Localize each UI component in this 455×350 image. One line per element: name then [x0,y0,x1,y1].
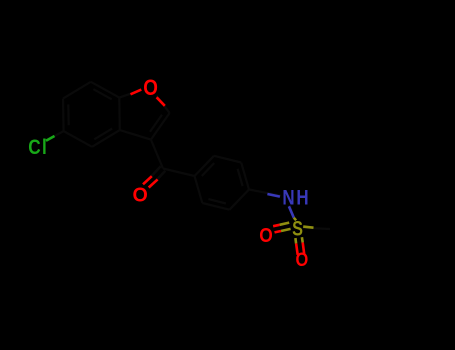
atom label O (sulfonyl left) [259,225,273,248]
S=O bottom double bond (olive/red) [295,237,304,255]
bond C1p-C2p [195,156,215,176]
S=O left double bond (olive/red) [273,223,291,233]
bond C4p-N dark half [249,190,281,196]
bond C3a-C7a [118,98,121,131]
bond C7a-O1 dark half [119,90,141,98]
double bond C5p=C6p inner line [208,199,226,203]
svg-text:O: O [133,184,148,206]
bond C3-C3a [120,130,151,140]
bond S-CH3 olive half [303,227,313,228]
bond C5-Cl green half [46,136,55,141]
atom label Cl - letter C [28,135,40,159]
bond N-S base [290,205,295,219]
atom label O (ketone) [133,184,148,206]
svg-text:l: l [42,135,47,159]
carbonyl C=O red half line 1 [143,176,152,184]
carbonyl C=O red half line 2 [149,179,158,187]
bond C7-C6 [63,82,91,99]
carbonyl C=O double bond dark halves [145,166,166,188]
double bond C2=C3 inner line [150,115,162,132]
bond C3-Cket [151,140,163,169]
bond C6-C5 [62,99,65,132]
atom label N of NH [282,187,294,210]
atom label H of NH [296,187,308,210]
bond C5-Cl dark half [48,131,64,140]
bond C5p-C6p [202,203,229,210]
svg-text:O: O [143,76,158,101]
atom label O (furan O1) [143,76,158,101]
bond C4p-C5p [230,190,250,210]
atom label Cl - letter l [42,135,47,159]
bond O1-C2 dark half [157,96,170,113]
bond C2p-C3p [214,156,241,163]
svg-text:S: S [292,216,303,239]
double bond C1p=C2p inner line [202,163,214,176]
bond C3p-C4p [241,163,249,190]
double bond C3p=C4p inner line [238,169,243,186]
bond C4p-N blue half [267,194,280,197]
double bond C7=C7a inner line [93,89,111,99]
bond C7a-C7 [91,82,120,98]
bond S-CH3 [303,228,330,229]
bond N-S olive half [294,218,296,221]
svg-text:O: O [259,225,273,248]
double bond C3a=C4 inner line [94,129,112,140]
bond C5-C4 [64,131,92,147]
bond N-S blue half [289,206,294,217]
svg-text:C: C [28,135,40,159]
svg-text:N: N [282,187,294,210]
atom label O (sulfonyl bottom) [296,248,309,270]
bond O1-C7a red half [131,90,142,95]
bond C4-C3a [92,130,120,147]
bond O1-C2 red half [157,97,165,106]
bond C2-C3 [151,113,170,140]
bond C6p-C1p [195,176,203,203]
svg-text:H: H [296,187,308,210]
svg-text:O: O [296,248,309,270]
atom label S [292,216,303,239]
double bond C5=C6 inner line [67,104,70,125]
bond Cket-C1p [163,169,195,177]
